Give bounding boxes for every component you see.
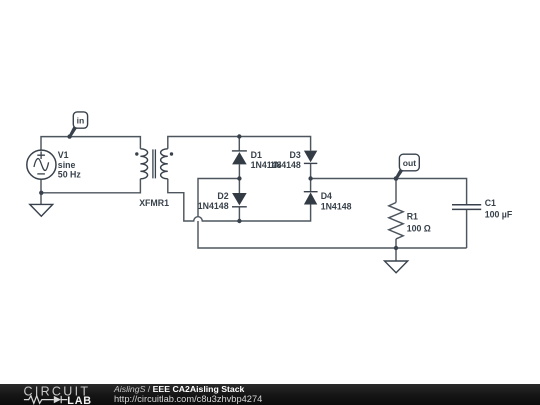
svg-text:AislingS / EEE CA2Aisling Stac: AislingS / EEE CA2Aisling Stack (113, 384, 245, 394)
svg-text:D4: D4 (321, 191, 332, 201)
svg-text:V1: V1 (58, 150, 69, 160)
svg-text:1N4148: 1N4148 (270, 160, 301, 170)
svg-text:1N4148: 1N4148 (321, 201, 352, 211)
svg-text:100 µF: 100 µF (485, 210, 513, 220)
svg-text:100 Ω: 100 Ω (407, 223, 431, 233)
svg-text:R1: R1 (407, 212, 418, 222)
svg-text:sine: sine (58, 160, 76, 170)
svg-text:XFMR1: XFMR1 (139, 198, 169, 208)
svg-text:50 Hz: 50 Hz (58, 170, 82, 180)
svg-text:http://circuitlab.com/c8u3zhvb: http://circuitlab.com/c8u3zhvbp4274 (114, 394, 262, 404)
svg-text:LAB: LAB (67, 395, 92, 405)
svg-text:1N4148: 1N4148 (198, 201, 229, 211)
svg-text:C1: C1 (485, 198, 496, 208)
svg-text:D1: D1 (251, 150, 262, 160)
svg-text:D3: D3 (290, 150, 301, 160)
svg-text:out: out (403, 158, 416, 168)
svg-text:D2: D2 (217, 191, 228, 201)
svg-text:in: in (77, 116, 85, 126)
